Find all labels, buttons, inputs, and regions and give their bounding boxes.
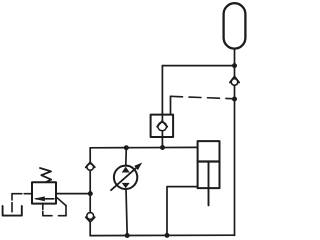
wire right vertical down bbox=[234, 85, 236, 235]
check valve V3 bbox=[86, 213, 95, 222]
check valve V2 bbox=[86, 162, 95, 170]
tank T1 bbox=[3, 206, 22, 216]
node dot J1 bbox=[232, 63, 237, 68]
wire accumulator to check valve V1 bbox=[234, 49, 236, 77]
wire left vertical upper bbox=[89, 148, 91, 163]
wire B1 to main line bbox=[161, 131, 163, 148]
node dot J3 bbox=[160, 145, 165, 150]
relief valve RV1 bbox=[32, 182, 56, 203]
main wire horizontal bbox=[90, 146, 197, 148]
node dot J2 bbox=[232, 97, 237, 102]
wire vertical into valve box B1 bbox=[161, 66, 163, 121]
valve box B1 bbox=[151, 115, 174, 137]
check valve V1 bbox=[230, 76, 239, 85]
node dot J4 bbox=[124, 145, 129, 150]
spring RV1 bbox=[40, 168, 51, 182]
wire top horizontal bbox=[162, 65, 234, 67]
dashed pilot drain wire bbox=[12, 194, 32, 212]
wire corner into valve box B1 top right bbox=[170, 96, 172, 114]
wire cylinder bottom feed bbox=[167, 187, 198, 236]
check valve inside B1 bbox=[157, 121, 167, 131]
node dot J7 bbox=[88, 191, 93, 196]
cylinder CYL bbox=[198, 141, 220, 205]
pump P1 variable displacement bbox=[111, 163, 142, 191]
node dot J5 bbox=[125, 233, 130, 238]
dashed pilot wire to J2 bbox=[171, 96, 235, 99]
wire pump bottom bbox=[126, 189, 127, 236]
wire pump top bbox=[125, 148, 128, 166]
pilot loop wire below RV1 bbox=[43, 197, 66, 216]
wire relief valve to J7 bbox=[56, 193, 90, 195]
accumulator ACC bbox=[224, 3, 246, 48]
bottom wire horizontal bbox=[90, 234, 234, 236]
node dot J6 bbox=[165, 233, 170, 238]
wire left vertical lower bbox=[89, 222, 91, 236]
wire left vertical middle bbox=[89, 170, 91, 212]
